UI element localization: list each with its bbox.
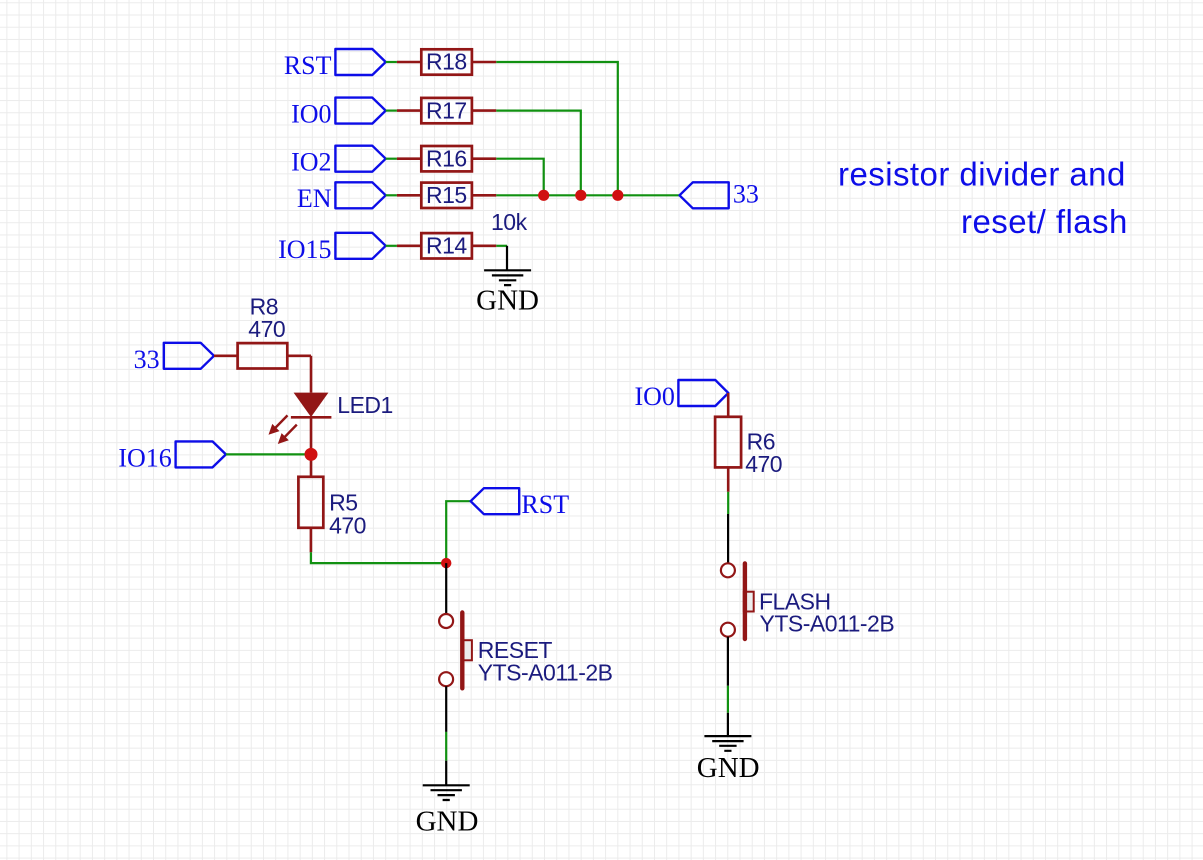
wire LED1 to junction — [310, 417, 313, 477]
resistor R6 body — [715, 417, 741, 468]
svg-text:resistor divider and: resistor divider and — [838, 155, 1126, 192]
junction dot at IO0 bus — [575, 190, 586, 201]
wire R18 to bus — [496, 62, 618, 195]
wire green segment flash gnd — [727, 686, 729, 713]
svg-text:33: 33 — [733, 179, 759, 208]
wire IO2 row — [386, 158, 397, 160]
svg-text:GND: GND — [416, 806, 479, 838]
wire IO0 row — [386, 109, 397, 111]
svg-text:R18: R18 — [426, 49, 467, 75]
svg-text:R16: R16 — [426, 145, 467, 171]
wire R5 to reset node — [311, 552, 446, 563]
ground GND2 lead — [445, 761, 447, 786]
switch FLASH actuator — [744, 592, 754, 612]
svg-text:R14: R14 — [426, 233, 467, 259]
svg-text:EN: EN — [297, 184, 332, 213]
LED LED1 emission arrow 1 — [269, 415, 288, 434]
resistor R16 pins — [397, 157, 496, 160]
svg-text:10k: 10k — [491, 209, 528, 235]
wire RESET to ground — [445, 686, 447, 732]
wire R16 to bus — [496, 159, 543, 196]
wire reset node to switch — [445, 563, 447, 614]
ground GND2 bars — [423, 784, 470, 786]
resistor R5 bottom pin — [310, 528, 313, 553]
LED LED1 emission arrow 2 — [278, 425, 297, 444]
switch FLASH pin circle top — [721, 563, 735, 577]
junction dot IO16 node — [305, 448, 318, 461]
ground GND3 bars — [704, 735, 751, 737]
node 33 right net flag — [680, 182, 729, 208]
resistor R8 pins — [214, 354, 311, 357]
svg-text:LED1: LED1 — [337, 392, 393, 418]
node IO16 net flag — [176, 441, 226, 467]
svg-text:YTS-A011-2B: YTS-A011-2B — [760, 610, 895, 636]
svg-text:IO15: IO15 — [278, 235, 331, 264]
switch RESET bar — [460, 613, 464, 689]
ground GND1 bars — [484, 269, 531, 271]
switch FLASH pin circle bottom — [721, 623, 735, 637]
svg-text:RST: RST — [521, 490, 569, 519]
wire EN bus to 33 flag — [496, 194, 679, 196]
resistor R14 pins — [397, 245, 496, 248]
wire green segment reset gnd — [445, 732, 447, 761]
wire R8 to LED1 — [310, 356, 313, 393]
LED LED1 cathode bar — [291, 416, 332, 419]
node IO0 net flag — [335, 98, 385, 124]
resistor R6 bottom pin — [727, 467, 730, 491]
switch RESET pin circle top — [439, 614, 453, 628]
resistor R5 body — [298, 477, 323, 528]
ground GND1 lead — [506, 246, 508, 270]
svg-text:470: 470 — [745, 451, 782, 477]
wire IO16 to junction — [226, 453, 311, 455]
junction dot at RST bus — [612, 190, 623, 201]
node IO2 net flag — [335, 146, 385, 172]
wire reset node up to RST flag — [446, 501, 470, 563]
svg-text:YTS-A011-2B: YTS-A011-2B — [478, 660, 613, 686]
svg-text:reset/ flash: reset/ flash — [961, 203, 1128, 240]
wire R14 to ground — [496, 245, 507, 247]
resistor R15 body — [421, 183, 472, 208]
node RST mid net flag — [471, 488, 520, 514]
svg-text:IO2: IO2 — [291, 148, 331, 177]
svg-text:R15: R15 — [426, 182, 467, 208]
svg-text:IO0: IO0 — [634, 382, 674, 411]
resistor R8 body — [238, 343, 288, 368]
svg-text:470: 470 — [248, 316, 285, 342]
junction dot at IO2 bus — [538, 190, 549, 201]
svg-text:GND: GND — [476, 284, 539, 316]
resistor R18 pins — [397, 61, 496, 64]
node IO0 bottom net flag — [678, 380, 728, 406]
svg-text:IO16: IO16 — [118, 443, 171, 472]
svg-text:R17: R17 — [426, 97, 467, 123]
resistor R17 pins — [397, 109, 496, 112]
switch RESET actuator — [462, 640, 472, 660]
svg-text:IO0: IO0 — [291, 100, 331, 129]
switch FLASH bar — [743, 563, 747, 639]
resistor R14 body — [421, 233, 472, 258]
junction dot reset node — [441, 558, 451, 568]
resistor R6 top pin — [727, 393, 730, 417]
svg-text:RST: RST — [284, 51, 332, 80]
node IO15 net flag — [335, 233, 385, 259]
resistor R15 pins — [397, 194, 496, 197]
resistor R16 body — [421, 146, 472, 171]
node 33 left net flag — [164, 343, 214, 369]
resistor R18 body — [421, 49, 472, 74]
wire EN row — [386, 194, 397, 196]
wire FLASH to ground — [727, 637, 729, 686]
wire IO15 row — [386, 245, 397, 247]
node EN net flag — [335, 182, 385, 208]
wire R6 to FLASH switch — [727, 492, 729, 514]
wire black to FLASH — [727, 514, 729, 563]
resistor R17 body — [421, 98, 472, 123]
wire RST row — [386, 61, 397, 63]
svg-text:GND: GND — [697, 752, 760, 784]
switch RESET pin circle bottom — [439, 672, 453, 686]
svg-text:33: 33 — [134, 345, 160, 374]
wire R17 to bus — [496, 111, 581, 196]
LED LED1 triangle — [294, 393, 329, 417]
svg-text:470: 470 — [329, 512, 366, 538]
node RST net flag — [335, 49, 385, 75]
ground GND3 lead — [727, 713, 729, 736]
